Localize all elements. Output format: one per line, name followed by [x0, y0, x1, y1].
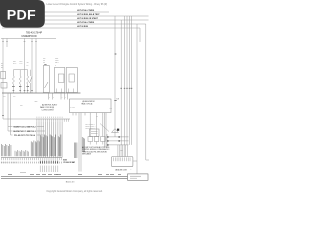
wire W4 [31, 38, 33, 93]
title block text 2 [130, 177, 137, 179]
junction dot 1 [107, 136, 108, 137]
connector tick C20 [115, 53, 117, 55]
terminal pin T1 [89, 142, 91, 145]
frame labels above [8, 173, 12, 175]
terminal block T3 [101, 137, 106, 142]
pin U2-10 [105, 113, 107, 116]
terminal block T2 [94, 137, 99, 142]
label fuse F3 value [27, 86, 29, 88]
component M1 detail line b [91, 133, 98, 135]
wire bus B5 [2, 27, 140, 29]
connector tick [31, 41, 33, 43]
ECM pin function labels rotated [1, 144, 3, 156]
junction dot 2 [119, 136, 120, 137]
switch blade [45, 82, 48, 88]
switch S1 [30, 70, 32, 76]
wire fuse F3 to bus [27, 84, 29, 93]
connector C2 extra pins [63, 119, 65, 122]
wire fuse F1 to bus [12, 84, 14, 93]
junction dot 4 [119, 140, 120, 141]
svg-text:HOT AT ALL TIMES: HOT AT ALL TIMES [77, 9, 95, 12]
frame title block [128, 174, 149, 180]
terminal block T1 [88, 137, 93, 142]
pin U2-9 [104, 113, 106, 116]
wire W6 [7, 93, 9, 131]
wire diagonal [100, 124, 109, 132]
wire stub below bus 1 [48, 93, 50, 100]
wire drop right 7 [136, 24, 138, 176]
relay K1 coil [58, 74, 64, 82]
module K2 pin a [68, 89, 70, 93]
connector tick N1 [2, 115, 4, 117]
pin U2-1 [72, 113, 74, 116]
pin U2-6 [89, 113, 91, 116]
component M1 detail line a [91, 130, 98, 132]
pin U2-2 [75, 113, 77, 116]
label net N2 [13, 125, 37, 127]
wire C2 drop [106, 134, 108, 148]
wire net N2 [8, 126, 44, 128]
fuse F1 [12, 70, 14, 76]
svg-text:C-CHNG: C-CHNG [70, 107, 75, 109]
wire bus B1 [2, 11, 109, 13]
wire junction line 3 [107, 144, 129, 146]
svg-text:← (A) SEE FUEL INJECT: ← (A) SEE FUEL INJECT [40, 103, 57, 106]
svg-text:INJ: INJ [27, 62, 29, 64]
svg-text:8: 8 [65, 97, 66, 99]
bus bar main [2, 92, 81, 94]
label pin row codes [39, 161, 41, 164]
label net N4 [13, 134, 37, 136]
wire net N3 [8, 130, 45, 132]
module U2 box [70, 99, 112, 113]
wire net N1 [3, 118, 36, 120]
svg-text:ECM: ECM [63, 159, 67, 161]
svg-text:888: 888 [120, 150, 122, 152]
wire drop right 5b [131, 16, 133, 145]
wire U2 pin drop a [78, 115, 80, 171]
wire drop right 8 stub [139, 28, 141, 42]
module K2 [66, 68, 77, 93]
connector block G2 [1, 83, 7, 89]
relay K1 pin a [56, 89, 58, 93]
svg-text:8: 8 [53, 97, 54, 99]
wire U2 pin drop b [80, 115, 82, 171]
svg-text:DATA LINK CONN: DATA LINK CONN [115, 168, 127, 171]
wire crossing ticks at bus [13, 90, 15, 92]
wire W3 [24, 38, 26, 93]
svg-text:S220: S220 [35, 101, 38, 103]
pin U2-7 [96, 113, 98, 116]
svg-text:785-43-178-4P: 785-43-178-4P [26, 32, 43, 35]
svg-text:PUMP: PUMP [55, 60, 59, 62]
ignition switch body [43, 66, 49, 93]
wire bus B2 [2, 15, 149, 17]
relay K1 pin b [61, 89, 63, 93]
pin U2-5 [84, 113, 86, 116]
svg-text:HOT IN RUN: HOT IN RUN [77, 26, 89, 28]
svg-text:← (A) SEE ECM/PCM: ← (A) SEE ECM/PCM [81, 100, 96, 103]
wire drop right 6 [145, 24, 147, 160]
wire drop right 2 [120, 20, 122, 145]
wire stub below bus 2 [51, 93, 53, 100]
svg-text:SW: SW [43, 60, 46, 62]
pin U2-3 [78, 113, 80, 116]
wire DLC feeds [117, 145, 119, 157]
label fuse F2 value [19, 86, 21, 88]
ECM connector C1 pins [1, 158, 3, 161]
wire junction line 1 [107, 136, 129, 138]
wire U2 short drop a [104, 115, 106, 147]
svg-text:C-CHNG CONN 8: C-CHNG CONN 8 [42, 109, 54, 111]
svg-text:IGN: IGN [43, 57, 45, 59]
connector tick [2, 41, 4, 43]
wire net N4 [11, 134, 44, 136]
wire bundle to ECM [36, 122, 38, 158]
connector tick [35, 41, 37, 43]
connector C2 comb bar [36, 118, 70, 120]
svg-text:S210: S210 [20, 105, 23, 107]
connector tick ignition [44, 64, 46, 66]
wire DLC elbow stub [133, 160, 137, 162]
svg-text:SD-DATA BUS (+): SD-DATA BUS (+) [85, 123, 95, 126]
svg-text:8: 8 [55, 65, 56, 67]
wire U2 to terminal 1 [89, 115, 91, 136]
pin numbers bottom left [0, 162, 2, 163]
wire right edge stub [146, 159, 149, 161]
connector tick C21 [114, 100, 116, 102]
svg-text:Copyright General Motors Compa: Copyright General Motors Company, all ri… [46, 190, 103, 193]
splice dot [117, 129, 119, 131]
wire W7 [10, 93, 12, 135]
svg-text:8: 8 [131, 169, 132, 171]
svg-text:ECM: ECM [20, 61, 23, 63]
wire junction line 2 [107, 140, 129, 142]
pin U2-4 [80, 113, 82, 116]
DLC pins [112, 157, 114, 161]
wire U2 to terminal 2 [96, 115, 98, 136]
wire sub-bundle below ECM [39, 166, 41, 172]
ECM connector C1 pin numbers [1, 162, 3, 164]
wire drop right 4 [126, 16, 128, 145]
wire stub below bus 4 [63, 93, 65, 100]
connector tick [6, 41, 8, 43]
frame line upper [1, 175, 148, 177]
fuse F3 [27, 70, 29, 76]
svg-text:UNDERHOOD: UNDERHOOD [21, 36, 37, 38]
svg-text:HOT IN RUN, BULB TEST: HOT IN RUN, BULB TEST [77, 14, 100, 16]
component M1 box [90, 129, 100, 137]
rotated labels group 2 [74, 143, 76, 159]
wire drop right 1 [114, 16, 116, 137]
module K2 pin b [73, 89, 75, 93]
title block text [130, 175, 141, 177]
svg-text:8.8: 8.8 [117, 99, 119, 101]
svg-text:ECM: ECM [13, 61, 16, 63]
wire U2 to terminal 3 [102, 115, 104, 136]
DLC connector J1 [112, 157, 133, 167]
junction dot 3 [107, 140, 108, 141]
svg-text:8: 8 [50, 97, 51, 99]
junction dot 5 [107, 144, 108, 145]
label fuse F1 value [12, 86, 14, 88]
svg-text:Sheet 1 of 3: Sheet 1 of 3 [66, 180, 75, 183]
rotated labels group 3 [81, 137, 83, 152]
wire stub below bus 3 [60, 93, 62, 100]
wire stub bottom left [20, 172, 26, 174]
relay K1 [54, 68, 64, 93]
wire drop right 3 [124, 16, 126, 145]
svg-text:HOT IN RUN OR START: HOT IN RUN OR START [77, 17, 99, 20]
pin U2-8 [102, 113, 104, 116]
wire U2 short drop b [105, 115, 107, 147]
label net N3 [13, 130, 37, 132]
svg-text:HOT AT ALL TIMES: HOT AT ALL TIMES [77, 21, 95, 24]
wire W2 stub [6, 38, 8, 47]
wire bus B4 [2, 23, 146, 25]
svg-text:PDF: PDF [7, 8, 36, 24]
junction bar [13, 69, 27, 71]
wire W1 [2, 38, 4, 119]
wire W5 [35, 38, 37, 93]
svg-text:8-8: 8-8 [43, 62, 45, 64]
fuse F2 [19, 70, 21, 76]
wire bus B3 [2, 19, 149, 21]
wire stub below bus 5 [66, 93, 68, 100]
splice symbol S40 [112, 129, 119, 133]
wire drop right 5 [129, 16, 131, 145]
module K2 inner [69, 74, 74, 82]
connector C2 pins [36, 119, 38, 122]
svg-text:FUEL: FUEL [55, 57, 59, 59]
svg-text:S114: S114 [13, 96, 16, 98]
connector tick [24, 41, 26, 43]
wire fuse F2 to bus [19, 84, 21, 93]
terminal pin T2 [96, 142, 98, 145]
connector C2 pin numbers [36, 117, 38, 119]
terminal pin T3 [102, 142, 104, 145]
PDF badge [0, 0, 45, 28]
fuse block bus bar [1, 37, 56, 39]
frame line lower [1, 177, 148, 179]
svg-text:Lower Level V2 Engine Control: Lower Level V2 Engine Control System Wir… [47, 3, 108, 6]
battery G1 [1, 71, 6, 79]
svg-text:C100: C100 [3, 96, 6, 98]
connector ticks cluster [120, 87, 122, 89]
ECM connector C1 strip [1, 157, 62, 159]
svg-text:8: 8 [62, 97, 63, 99]
